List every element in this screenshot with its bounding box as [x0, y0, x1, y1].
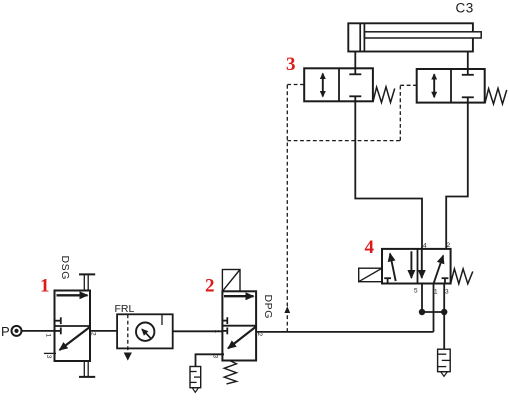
valve 1 bottom plunger actuator	[79, 361, 95, 377]
wire P to valve 1	[21, 330, 56, 332]
wire cylinder left port to valve 3 left	[354, 52, 356, 69]
valve 2 DPG body	[222, 291, 256, 360]
valve 1 top plunger actuator	[79, 274, 95, 290]
silencer left	[190, 367, 201, 393]
supply rail valve 2 to valve 4	[256, 331, 433, 333]
valve 3 right return spring	[485, 88, 507, 104]
valve 3 left flow double arrow	[322, 74, 324, 97]
exhaust link wire	[422, 311, 444, 313]
svg-text:5: 5	[414, 288, 418, 295]
valve 3 left return spring	[373, 87, 395, 103]
svg-text:DSG: DSG	[59, 256, 71, 281]
valve 4 left box blocked port T	[384, 278, 391, 283]
svg-text:3: 3	[286, 54, 296, 75]
pilot flow arrowhead	[284, 306, 290, 313]
valve 2 exhaust diagonal arrow	[228, 327, 256, 349]
svg-text:P: P	[1, 324, 10, 339]
svg-text:DPG: DPG	[262, 295, 274, 320]
svg-text:1: 1	[213, 330, 220, 334]
FRL filter dashed drain	[127, 314, 129, 353]
svg-text:2: 2	[205, 276, 215, 297]
svg-text:4: 4	[365, 237, 375, 258]
valve 4 return spring	[451, 269, 473, 284]
valve 1 top box flow arrow	[57, 294, 88, 296]
valve 4 left box diagonal arrow	[390, 254, 396, 282]
valve 4 right box blocked port T	[442, 278, 449, 283]
junction node right	[441, 309, 447, 315]
pilot dashed branch to valve 3 left	[287, 84, 304, 86]
FRL gauge	[136, 323, 154, 341]
valve 4 right box down arrow	[421, 249, 423, 278]
FRL lubricator tick	[161, 314, 163, 325]
valve 1 top box blocked port T	[55, 317, 61, 324]
wire valve 4 port 3 down to silencer	[443, 284, 445, 350]
svg-text:1: 1	[40, 276, 50, 297]
cylinder piston rod	[364, 32, 481, 38]
svg-text:3: 3	[445, 289, 449, 296]
wire valve 3 left to valve 4 port 4	[355, 101, 422, 249]
valve 3 left body	[304, 68, 373, 101]
FRL unit box	[117, 314, 173, 348]
wire rail up to valve 4 port 1	[433, 284, 435, 332]
svg-text:FRL: FRL	[115, 303, 135, 315]
FRL gauge needle	[142, 329, 151, 338]
svg-text:C3: C3	[456, 1, 474, 16]
valve 2 top box flow arrow	[224, 295, 254, 297]
pilot dashed cross branch	[287, 140, 400, 142]
valve 3 right flow double arrow	[433, 74, 435, 97]
junction node left	[419, 309, 425, 315]
valve 1 exhaust diagonal arrow	[60, 327, 91, 350]
silencer right	[438, 349, 451, 376]
valve 2 return spring	[224, 361, 236, 384]
svg-text:2: 2	[90, 332, 97, 336]
cylinder C3	[348, 23, 481, 51]
pilot dashed branch to valve 3 right	[400, 84, 416, 86]
valve 2 top box blocked port T	[222, 317, 227, 324]
wire FRL to valve 2	[173, 330, 223, 332]
valve 3 right bottom blocked port T	[462, 97, 474, 102]
valve 4 body	[382, 249, 451, 284]
valve 3 right top blocked port T	[462, 69, 474, 75]
valve 1 DSG body	[55, 291, 91, 362]
valve 4 left box down arrow	[410, 251, 412, 278]
valve 1 supply blocked port T	[55, 328, 61, 335]
svg-text:3: 3	[45, 355, 52, 359]
valve 4 right box diagonal arrow	[434, 256, 444, 284]
wire valve 3 right to valve 4 port 2	[446, 103, 468, 249]
svg-text:2: 2	[256, 333, 263, 337]
pilot dashed riser right	[399, 85, 401, 140]
svg-text:1: 1	[45, 334, 52, 338]
pilot dashed riser from rail	[286, 85, 288, 332]
valve 2 exhaust wire to silencer	[196, 354, 225, 366]
cylinder piston	[359, 23, 361, 51]
valve 4 pilot actuator box	[359, 268, 382, 282]
valve 3 left top blocked port T	[349, 68, 361, 74]
svg-text:1: 1	[434, 289, 438, 296]
svg-text:4: 4	[423, 243, 427, 250]
valve 2 pilot actuator box	[222, 270, 240, 292]
wire valve 4 port 5 down	[421, 284, 423, 313]
wire cylinder right port to valve 3 right	[467, 52, 469, 70]
valve 3 left bottom blocked port T	[349, 96, 361, 101]
pressure source P	[1, 324, 22, 339]
valve 2 supply blocked port T	[222, 328, 227, 335]
valve 3 right body	[417, 69, 485, 103]
svg-text:2: 2	[447, 242, 451, 249]
wire valve 1 to FRL	[90, 330, 117, 332]
valve 1 exhaust stub	[44, 352, 56, 354]
FRL drain arrowhead	[124, 353, 132, 361]
